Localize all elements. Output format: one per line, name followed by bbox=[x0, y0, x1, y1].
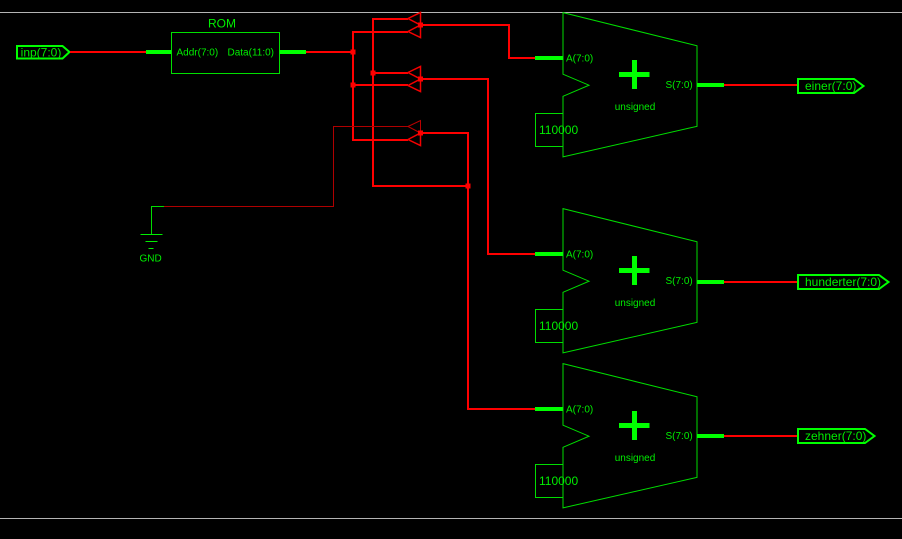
adder U3 body bbox=[563, 364, 697, 508]
adder U3 A pin bbox=[535, 407, 563, 411]
wire tap1 lower bbox=[352, 31, 408, 33]
gnd symbol stub bbox=[152, 207, 165, 235]
ROM output pin Data(11:0) bbox=[280, 50, 307, 54]
wire tap3 output to adder3 bbox=[421, 133, 536, 409]
svg-text:ROM: ROM bbox=[208, 17, 236, 31]
svg-text:S(7:0): S(7:0) bbox=[666, 431, 693, 442]
svg-text:unsigned: unsigned bbox=[615, 102, 656, 113]
output port hunderter(7:0) bbox=[798, 275, 889, 289]
bus wire vertical x=353 bbox=[352, 31, 354, 140]
wire ROM to bus node bbox=[306, 51, 354, 53]
wire tap3 lower bbox=[352, 139, 408, 141]
svg-text:S(7:0): S(7:0) bbox=[666, 80, 693, 91]
bus tap T1 lower triangle bbox=[408, 25, 421, 38]
junction node tap2 (420.5,79) bbox=[418, 77, 423, 82]
svg-text:110000: 110000 bbox=[539, 123, 578, 137]
bottom window border line bbox=[0, 518, 902, 520]
svg-text:einer(7:0): einer(7:0) bbox=[805, 79, 856, 93]
svg-text:Addr(7:0): Addr(7:0) bbox=[177, 48, 219, 59]
wire U3 S to zehner port bbox=[724, 435, 797, 437]
bus tap T3 upper triangle (thin, gnd net) bbox=[408, 121, 421, 134]
adder U3 constant block 110000 bbox=[536, 465, 579, 498]
junction node (468,186) bbox=[466, 184, 471, 189]
adder U1 A pin bbox=[535, 56, 563, 60]
wire tap2 lower bbox=[353, 84, 408, 86]
wire tap1 upper bbox=[372, 18, 408, 20]
bus tap T2 upper triangle bbox=[408, 67, 421, 80]
adder U1 body bbox=[563, 13, 697, 157]
bus tap T2 lower triangle bbox=[408, 79, 421, 92]
junction node tap3 (420.5,133) bbox=[418, 131, 423, 136]
svg-text:hunderter(7:0): hunderter(7:0) bbox=[805, 275, 881, 289]
plus sign U3 bbox=[619, 423, 650, 428]
adder U1 constant block 110000 bbox=[536, 114, 579, 147]
ground symbol GND bbox=[140, 235, 163, 265]
svg-text:110000: 110000 bbox=[539, 319, 578, 333]
svg-text:A(7:0): A(7:0) bbox=[566, 54, 593, 65]
svg-text:A(7:0): A(7:0) bbox=[566, 250, 593, 261]
adder U2 constant block 110000 bbox=[536, 310, 579, 343]
output port zehner(7:0) bbox=[798, 429, 875, 443]
plus sign U1 bbox=[619, 72, 650, 77]
ROM input pin Addr(7:0) bbox=[146, 50, 171, 54]
plus sign U2 bbox=[619, 268, 650, 273]
junction node (353,85) bbox=[351, 83, 356, 88]
adder U2 A pin bbox=[535, 252, 563, 256]
adder U1 S pin bbox=[697, 83, 724, 87]
svg-text:A(7:0): A(7:0) bbox=[566, 405, 593, 416]
svg-text:unsigned: unsigned bbox=[615, 298, 656, 309]
junction node (373,73) bbox=[371, 71, 376, 76]
ROM bbox=[172, 17, 280, 74]
svg-text:unsigned: unsigned bbox=[615, 453, 656, 464]
output port einer(7:0) bbox=[798, 79, 864, 93]
bus wire vertical x=373 bbox=[372, 18, 374, 187]
top window border line bbox=[0, 12, 902, 14]
input port inp(7:0) bbox=[17, 46, 70, 60]
svg-text:Data(11:0): Data(11:0) bbox=[227, 48, 274, 59]
bus tap T1 upper triangle bbox=[408, 13, 421, 26]
wire tap2 output to adder2 bbox=[421, 79, 536, 254]
svg-text:zehner(7:0): zehner(7:0) bbox=[805, 429, 866, 443]
svg-text:110000: 110000 bbox=[539, 474, 578, 488]
adder U2 S pin bbox=[697, 280, 724, 284]
adder U3 S pin bbox=[697, 434, 724, 438]
bus tap T3 lower triangle bbox=[408, 133, 421, 146]
wire tap1 output to adder1 bbox=[421, 25, 536, 58]
junction node (353,52) bbox=[351, 50, 356, 55]
wire tap2 upper bbox=[373, 72, 408, 74]
svg-text:inp(7:0): inp(7:0) bbox=[21, 46, 62, 60]
gnd net thin wire bbox=[164, 127, 408, 207]
svg-text:S(7:0): S(7:0) bbox=[666, 276, 693, 287]
svg-text:GND: GND bbox=[140, 254, 162, 265]
wire U2 S to hunderter port bbox=[724, 281, 797, 283]
adder U2 body bbox=[563, 209, 697, 353]
wire U1 S to einer port bbox=[724, 84, 797, 86]
junction node tap1 (420.5,25) bbox=[418, 23, 423, 28]
wire bottom bus to junction bbox=[372, 185, 468, 187]
wire inp to ROM bbox=[70, 51, 146, 53]
